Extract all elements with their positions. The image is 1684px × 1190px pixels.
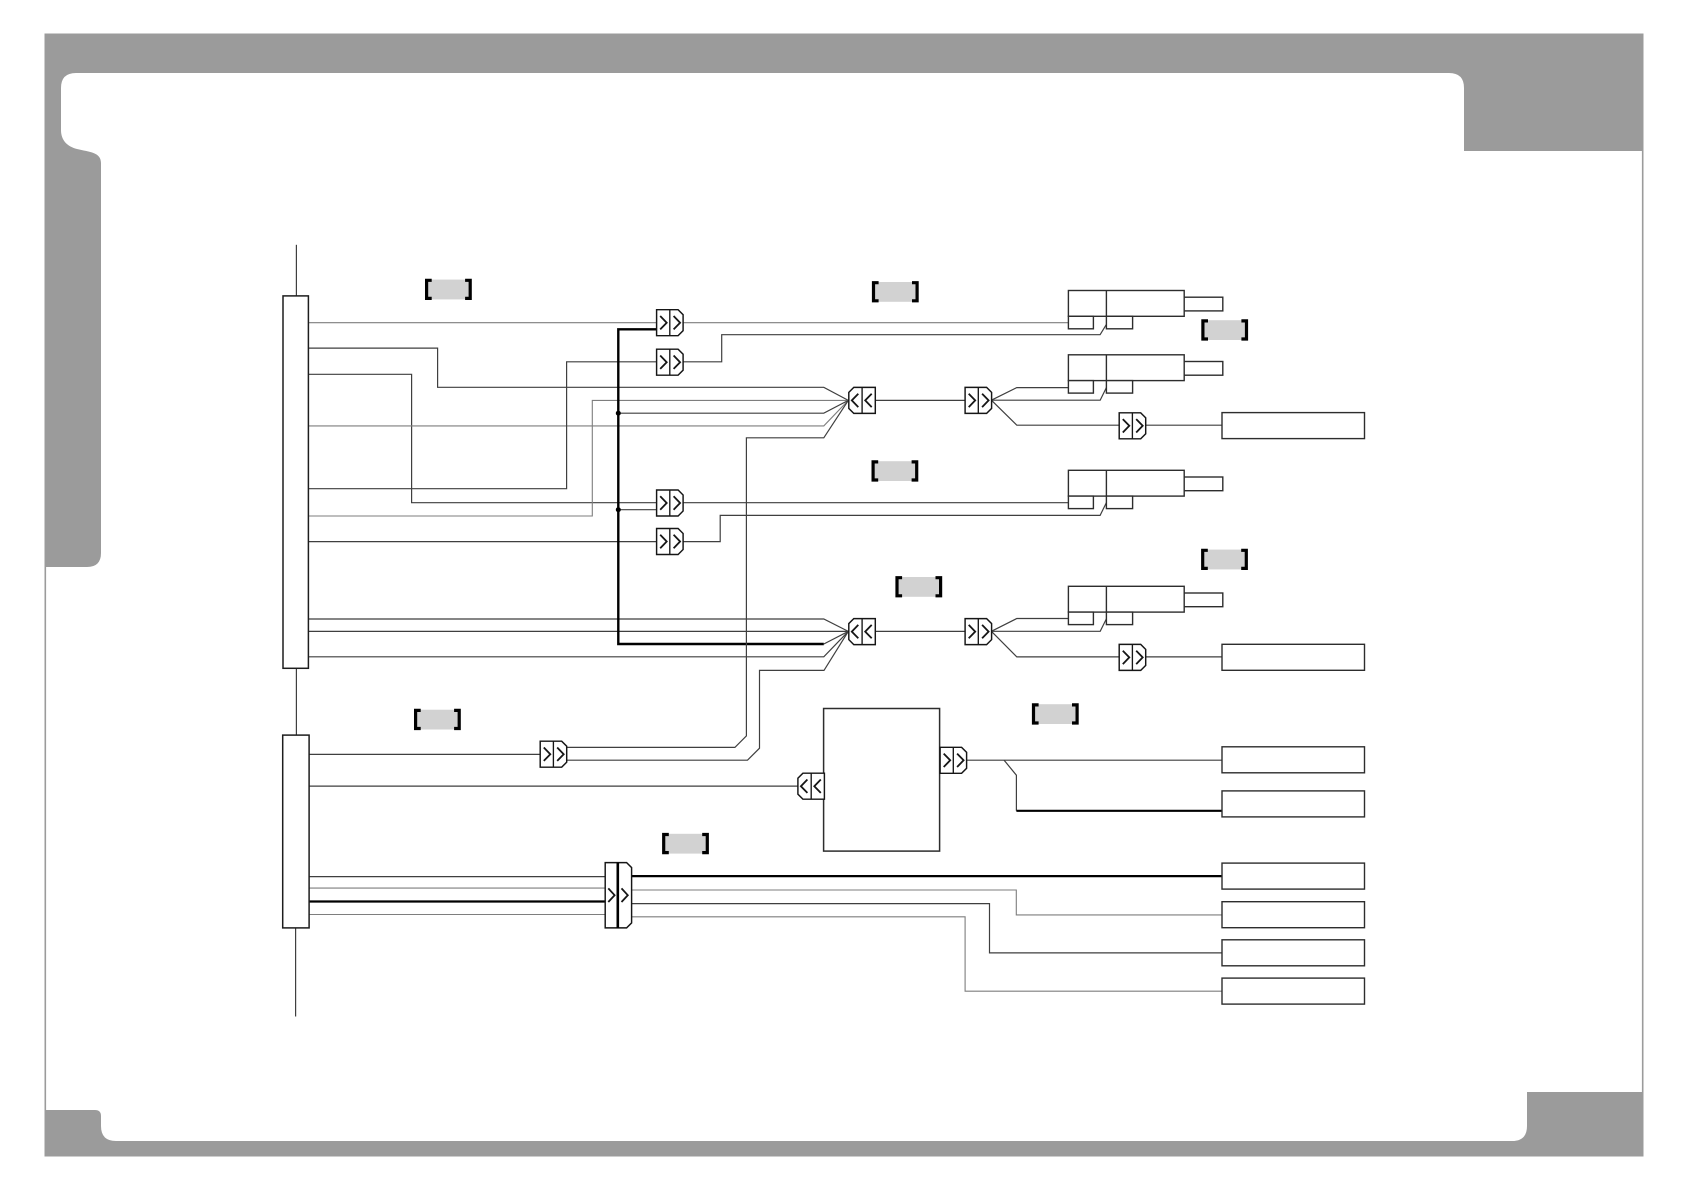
wire IC U1 output to box LB3 — [966, 759, 1222, 761]
node bus junction 2 — [616, 507, 621, 512]
wire CN1 pin6 to mux M1 input2 — [308, 400, 848, 516]
box LB1 — [1222, 413, 1365, 439]
driver D2 — [965, 619, 992, 645]
wire buffer U2 output3 to box LB7 — [632, 904, 1222, 953]
label T1 — [427, 280, 471, 300]
wire CN2 pin2 to IC U1 input port — [309, 785, 798, 787]
buffer B5 — [540, 741, 567, 767]
wire CN1 pin8 to mux M2 input1 — [308, 619, 848, 631]
wire driver D2 fan to buffer B7 — [991, 631, 1119, 657]
IC U1 output port — [940, 747, 967, 773]
wire driver D1 fan to jack J2 pin R — [991, 387, 1106, 400]
wire buffer B5 output A to mux M1 input5 — [567, 400, 849, 747]
wire CN1 pin1 to buffer B1 to jack J1 pin L — [308, 322, 1068, 324]
jack J2 — [1068, 355, 1222, 393]
buffer B1 — [657, 310, 684, 336]
gray top band with top-right block and left tab — [45, 34, 1643, 567]
mux M2 — [849, 619, 876, 645]
wire CN1 pin9 to mux M2 input2 — [308, 630, 848, 632]
wire buffer B5 output B to mux M2 input5 — [567, 631, 849, 760]
wire bus branch to buffer B3 — [618, 509, 656, 511]
label T7 — [1034, 704, 1078, 724]
wire driver D2 fan to jack J4 pin R — [991, 619, 1106, 632]
gray bottom band with bottom-left tab and bottom-right block — [45, 1092, 1643, 1156]
wire CN1 pin4 to mux M1 input4 — [308, 400, 848, 426]
buffer B3 — [657, 490, 684, 516]
wire thick to box LB4 — [1016, 810, 1222, 812]
wire stub below connector CN2 — [295, 928, 297, 1017]
wire CN1 pin2 to mux M1 input1 — [308, 348, 848, 400]
label T3 — [1203, 320, 1247, 340]
label T2 — [874, 282, 918, 302]
label T4 — [873, 461, 917, 481]
connector CN1 — [283, 296, 308, 668]
wire CN2 pin6 to buffer U2 — [309, 914, 605, 916]
box LB8 — [1222, 978, 1365, 1004]
buffer B6 — [1119, 413, 1146, 439]
connector CN2 — [283, 735, 309, 928]
wire driver D1 fan to buffer B6 — [991, 400, 1119, 425]
box LB7 — [1222, 940, 1365, 966]
wire thick bus from buffer B1 to mux M2 input3 — [618, 329, 824, 644]
box LB4 — [1222, 791, 1365, 817]
IC U1 input port — [798, 773, 825, 799]
wire CN2 pin4 to buffer U2 — [309, 887, 605, 889]
wire stub above connector CN1 — [295, 245, 297, 296]
wire IC U1 output branch down — [1004, 760, 1016, 811]
wire mux M2 output to driver D2 — [876, 630, 966, 632]
wire driver D2 fan to jack J4 pin L — [991, 619, 1068, 632]
wire buffer B6 output to box LB1 — [1146, 424, 1222, 426]
wire buffer U2 output2 to box LB6 — [632, 890, 1222, 915]
wire bus branch to mux M1 input3 — [618, 400, 848, 413]
label T9 — [664, 834, 708, 854]
IC U1 big box — [824, 709, 940, 852]
label T6 — [1203, 550, 1247, 570]
buffer U2 tall — [605, 863, 631, 928]
wire CN1 pin7 to buffer B4 to jack J3 pin R — [308, 503, 1106, 542]
wire stub between CN1 and CN2 — [295, 668, 297, 735]
wire CN2 pin3 to buffer U2 — [309, 876, 605, 878]
node bus junction 1 — [616, 411, 621, 416]
wire CN1 pin10 to mux M2 input4 — [308, 631, 848, 656]
label T5 — [897, 577, 941, 597]
buffer B2 — [657, 349, 684, 375]
wire CN2 pin1 to buffer B5 — [309, 753, 540, 755]
mux M1 — [849, 387, 876, 413]
driver D1 — [965, 387, 992, 413]
jack J4 — [1068, 586, 1222, 624]
wire driver D1 fan to jack J2 pin L — [991, 388, 1068, 401]
box LB5 — [1222, 863, 1365, 889]
wire buffer U2 output4 to box LB8 — [632, 917, 1222, 991]
wire CN1 pin5 to buffer B2 — [308, 362, 656, 489]
wire buffer B2 output to jack J1 pin R — [683, 324, 1106, 361]
wire buffer U2 output1 to box LB5 — [632, 875, 1222, 877]
wire CN2 pin5 thick to buffer U2 — [309, 900, 605, 902]
box LB6 — [1222, 902, 1365, 928]
wire buffer B7 output to box LB2 — [1146, 656, 1222, 658]
box LB3 — [1222, 747, 1365, 773]
buffer B7 — [1119, 644, 1146, 670]
wire CN1 pin3 to buffer B3 to jack J3 pin L — [308, 374, 1068, 502]
label T8 — [416, 710, 460, 730]
wire mux M1 output to driver D1 — [876, 399, 966, 401]
jack J3 — [1068, 470, 1222, 508]
buffer B4 — [657, 529, 684, 555]
box LB2 — [1222, 644, 1365, 670]
jack J1 — [1068, 291, 1222, 329]
